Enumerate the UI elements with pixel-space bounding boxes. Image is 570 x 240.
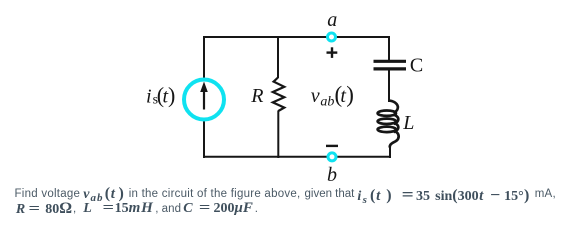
wire resistor upper xyxy=(277,36,279,78)
wire bottom xyxy=(203,156,390,158)
node b xyxy=(328,153,336,161)
caption line 2 xyxy=(16,200,72,218)
inductor L xyxy=(378,101,399,148)
label C xyxy=(410,54,423,76)
wire left upper xyxy=(203,36,205,79)
wire top xyxy=(203,36,390,38)
resistor R xyxy=(273,78,285,112)
label b xyxy=(327,164,337,186)
plus sign xyxy=(327,47,338,58)
label a xyxy=(327,9,337,31)
svg-text:R: R xyxy=(250,85,263,107)
svg-text:a: a xyxy=(327,9,337,31)
label L xyxy=(402,112,414,134)
minus sign xyxy=(326,145,338,147)
svg-text:is(t): is(t) xyxy=(146,83,175,108)
caption line 1 xyxy=(15,188,81,200)
label v_ab(t) xyxy=(311,82,354,109)
label R xyxy=(250,85,263,107)
wire left lower xyxy=(203,120,205,158)
svg-text:C: C xyxy=(410,54,423,76)
wire right upper xyxy=(388,36,390,60)
current source IS xyxy=(184,80,224,120)
wire right mid xyxy=(388,71,390,103)
svg-text:L: L xyxy=(402,112,414,134)
capacitor C xyxy=(374,61,407,69)
wire resistor lower xyxy=(277,111,279,159)
label i_s(t) xyxy=(146,83,175,108)
svg-text:vab(t): vab(t) xyxy=(311,82,354,109)
node a xyxy=(328,33,336,41)
svg-text:b: b xyxy=(327,164,337,186)
wire right lower xyxy=(389,145,391,158)
